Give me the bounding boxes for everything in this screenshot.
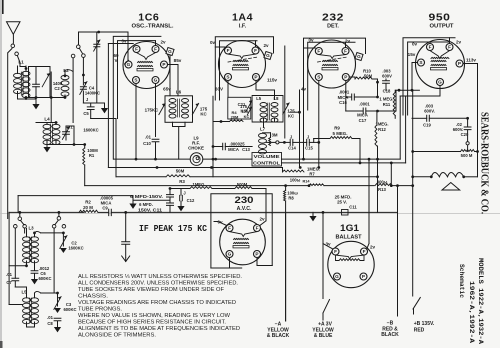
svg-text:L1: L1: [18, 60, 24, 65]
svg-text:MODELS 1922-A,1932-A: MODELS 1922-A,1932-A: [477, 258, 484, 344]
tube 230 (AVC) pin P: [254, 251, 261, 258]
svg-text:1A4: 1A4: [232, 12, 253, 24]
svg-text:R12: R12: [378, 127, 386, 132]
svg-text:115v: 115v: [267, 78, 277, 83]
wire: [390, 163, 392, 186]
svg-text:OUTPUT: OUTPUT: [430, 23, 455, 29]
svg-text:C17: C17: [359, 118, 367, 123]
svg-text:Schematic: Schematic: [458, 264, 465, 298]
tube 1A4 (IF amp) pin F: [225, 47, 232, 54]
lead -B wire: [397, 186, 399, 316]
ground below L1: [35, 98, 37, 105]
resistor R7: [283, 170, 304, 172]
svg-text:R13: R13: [378, 187, 386, 192]
wire: [372, 78, 378, 80]
svg-text:C18: C18: [383, 89, 391, 94]
svg-text:1600KC: 1600KC: [83, 128, 98, 133]
bus wire: [116, 176, 166, 178]
svg-text:2v: 2v: [160, 40, 166, 45]
tube 1A4 (IF amp) internal elements: [233, 60, 248, 61]
volume control box: [252, 153, 282, 167]
wire: [27, 326, 35, 328]
svg-text:RED: RED: [414, 327, 425, 333]
svg-text:F: F: [344, 49, 347, 54]
wire: [394, 116, 396, 119]
coil L7: [259, 133, 267, 137]
wire: [323, 244, 333, 249]
svg-text:G: G: [357, 54, 361, 59]
resistor R1: [83, 148, 85, 165]
tube 1C6 (osc-transl) pin G: [166, 47, 174, 55]
svg-text:R11: R11: [383, 102, 391, 107]
svg-text:J: J: [307, 135, 310, 140]
svg-text:G: G: [335, 274, 339, 279]
shield box 230: [211, 194, 272, 268]
svg-text:L5: L5: [256, 96, 262, 101]
wire left frame: [8, 212, 10, 304]
svg-text:25 MFD.: 25 MFD.: [335, 194, 352, 199]
svg-text:R2: R2: [85, 200, 91, 205]
svg-text:CHOKE: CHOKE: [188, 146, 204, 151]
svg-text:R14: R14: [303, 179, 311, 183]
L6 primary: [169, 99, 176, 103]
box C21 R4: [228, 97, 251, 119]
wire P to L6: [168, 64, 178, 66]
shield box 232: [304, 38, 366, 159]
svg-text:& BLACK: & BLACK: [267, 333, 290, 339]
resistor R10: [355, 77, 372, 79]
svg-text:R3: R3: [179, 179, 185, 184]
resistor R12: [375, 125, 377, 146]
svg-text:50M: 50M: [364, 73, 373, 78]
trimmer arrow C2: [42, 73, 50, 87]
svg-text:L3: L3: [28, 226, 34, 231]
svg-text:1400KC: 1400KC: [85, 91, 100, 96]
wire S down: [318, 81, 320, 168]
svg-text:2v: 2v: [370, 245, 376, 250]
svg-text:ALIGNMENT IS TO BE MADE AT FRE: ALIGNMENT IS TO BE MADE AT FREQUENCIES I…: [78, 326, 240, 332]
tube 1G1 (ballast) pin P: [360, 273, 367, 280]
svg-text:1 MEG.: 1 MEG.: [379, 97, 393, 102]
ground: [312, 212, 314, 216]
svg-text:C8: C8: [47, 321, 53, 326]
svg-text:S: S: [226, 75, 229, 80]
antenna: [7, 22, 21, 43]
tuning cap C2 frame: [29, 67, 51, 98]
svg-text:F: F: [135, 47, 138, 52]
wire: [47, 144, 85, 146]
svg-text:F: F: [254, 48, 257, 53]
svg-text:F: F: [363, 249, 366, 254]
svg-text:5 MEG.: 5 MEG.: [333, 131, 348, 136]
trimmer arrows: [246, 100, 252, 111]
wire: [91, 118, 116, 120]
svg-text:ALL CONDENSERS 200V. UNLESS OT: ALL CONDENSERS 200V. UNLESS OTHERWISE SP…: [78, 281, 238, 287]
tube 950 (output) pin F: [427, 44, 434, 51]
svg-text:KC: KC: [200, 112, 207, 117]
svg-text:S: S: [419, 60, 422, 65]
svg-text:R9: R9: [334, 126, 340, 131]
wire P right: [463, 63, 477, 65]
wire: [20, 66, 26, 68]
svg-text:L6: L6: [176, 90, 182, 95]
wire: [285, 201, 287, 321]
wire: [429, 42, 431, 43]
tube 230 (AVC) pin G: [226, 251, 233, 258]
svg-text:2v: 2v: [259, 217, 265, 222]
svg-text:.0001: .0001: [359, 102, 370, 107]
coil L4: [43, 124, 51, 128]
wire: [304, 47, 316, 49]
svg-text:J: J: [86, 97, 89, 102]
svg-text:2v: 2v: [456, 40, 462, 45]
tube 1C6 (osc-transl) envelope: [123, 42, 170, 89]
wire bottom pins: [135, 84, 137, 159]
svg-text:G: G: [228, 252, 232, 257]
bus wire: [190, 176, 378, 178]
bus wire: [396, 89, 419, 91]
svg-text:C14: C14: [288, 146, 296, 151]
svg-text:.01: .01: [145, 135, 151, 140]
svg-text:J: J: [290, 135, 293, 140]
svg-text:C1: C1: [67, 125, 73, 130]
svg-text:50M: 50M: [176, 169, 185, 174]
svg-text:BLACK: BLACK: [381, 332, 399, 338]
speaker cone: [442, 183, 460, 191]
svg-text:ALL RESISTORS ⅓ WATT UNLESS OT: ALL RESISTORS ⅓ WATT UNLESS OTHERWISE SP…: [78, 274, 242, 280]
capacitor below fold: [124, 211, 127, 214]
tube 1A4 (IF amp) envelope: [219, 41, 266, 88]
tube 1C6 (osc-transl) pin P: [161, 61, 168, 68]
capacitor C13: [223, 143, 226, 149]
trimmer C2b: [62, 233, 64, 246]
svg-text:MICA: MICA: [228, 147, 239, 152]
resistor R13: [375, 184, 392, 186]
lead +B switch: [413, 298, 420, 310]
svg-text:& BLUE: & BLUE: [314, 333, 333, 339]
tube 1C6 (osc-transl) pin G: [152, 77, 159, 84]
wire: [413, 176, 432, 178]
capacitor C10: [152, 139, 159, 142]
svg-text:G: G: [438, 80, 442, 85]
tube 232 (detector) internal elements: [323, 60, 338, 61]
shield box 1A4: [215, 37, 273, 100]
trimmer C3: [57, 293, 59, 306]
svg-text:C7: C7: [6, 280, 12, 285]
svg-text:IF PEAK 175 KC: IF PEAK 175 KC: [139, 223, 207, 234]
svg-text:600KC: 600KC: [63, 307, 76, 312]
wire: [213, 146, 223, 148]
fold line: [0, 212, 500, 214]
tube 1G1 (ballast) pin F: [361, 248, 368, 255]
resistor R4: [230, 120, 244, 122]
tube 1G1 (ballast) pin G: [334, 273, 341, 280]
wire S down: [227, 81, 229, 98]
svg-text:175KC: 175KC: [145, 108, 159, 113]
coil L2: [61, 75, 69, 79]
svg-text:F: F: [317, 49, 320, 54]
svg-text:BALLAST: BALLAST: [336, 234, 363, 240]
tube 230 (AVC) envelope: [220, 219, 266, 265]
lead -A: [285, 213, 287, 321]
capacitor C8: [54, 318, 61, 321]
coil L1 core: [21, 72, 23, 95]
tube 1A4 (IF amp) pin S: [225, 74, 232, 81]
tube 232 (detector) envelope: [308, 40, 356, 88]
wire filament rail: [108, 43, 133, 45]
svg-text:P: P: [162, 62, 165, 67]
tube 950 extra grid: [431, 57, 449, 58]
capacitor C16: [346, 96, 351, 98]
switch +A: [323, 300, 330, 314]
tube 230 (AVC) pin F: [254, 225, 261, 232]
scan left edge: [0, 0, 2, 348]
svg-text:VOLTAGE READINGS ARE FROM CHAS: VOLTAGE READINGS ARE FROM CHASSIS TO IND…: [78, 300, 236, 306]
trimmer C4: [80, 82, 87, 95]
svg-text:600KC: 600KC: [38, 276, 51, 281]
L6 secondary: [182, 99, 189, 103]
svg-text:C15: C15: [305, 146, 313, 151]
svg-text:25 V.: 25 V.: [337, 200, 347, 205]
IF transformer L6 box: [165, 96, 193, 123]
wire: [299, 90, 301, 168]
capacitor C2: [33, 84, 40, 87]
tube 1A4 (IF amp) pin F: [252, 47, 259, 54]
capacitor C7: [12, 278, 19, 281]
svg-text:F: F: [334, 249, 337, 254]
bus wire: [85, 185, 309, 187]
antenna switch: [11, 44, 15, 48]
wire: [50, 72, 52, 123]
svg-text:232: 232: [322, 12, 344, 24]
svg-text:R8: R8: [288, 195, 294, 200]
svg-text:F: F: [154, 47, 157, 52]
capacitor C6: [34, 266, 36, 270]
wire P down: [255, 81, 257, 90]
tube 1A4 (IF amp) pin P: [253, 74, 260, 81]
tube 950 (output) envelope: [416, 40, 465, 89]
wire G square: [284, 46, 286, 138]
coil L1 secondary: [22, 71, 30, 75]
svg-text:F: F: [448, 45, 451, 50]
trimmer C1: [65, 126, 67, 140]
tube 950 (output) pin P: [456, 60, 463, 67]
coil L3: [23, 237, 31, 241]
wire: [215, 46, 224, 48]
wire G down: [439, 86, 441, 96]
svg-text:F: F: [429, 45, 432, 50]
tube 232 (detector) pin F: [315, 48, 322, 55]
svg-text:C5: C5: [83, 111, 89, 116]
coil L8 secondary: [271, 103, 278, 107]
pot wiper: [466, 142, 469, 145]
wire P right: [350, 76, 356, 78]
svg-text:20M: 20M: [231, 115, 239, 120]
svg-text:J: J: [183, 190, 186, 195]
ground below L4: [46, 145, 48, 148]
svg-text:150V. C11: 150V. C11: [138, 207, 163, 212]
wire: [263, 119, 265, 127]
svg-text:230: 230: [235, 195, 254, 205]
svg-text:MICA: MICA: [357, 113, 368, 118]
svg-text:85v: 85v: [174, 58, 182, 63]
svg-text:P: P: [255, 252, 258, 257]
wire: [14, 228, 16, 278]
coil L1 primary: [14, 73, 22, 77]
svg-text:C12: C12: [187, 198, 195, 203]
svg-text:F: F: [227, 48, 230, 53]
tube 230 (AVC) internal elements: [234, 238, 249, 239]
resistor 500M: [461, 150, 475, 152]
wire: [36, 122, 57, 124]
svg-text:CONTROL: CONTROL: [253, 161, 280, 166]
svg-text:.01: .01: [6, 272, 12, 277]
wire: [82, 58, 84, 86]
svg-text:0v: 0v: [121, 39, 127, 44]
svg-text:KC: KC: [240, 109, 246, 114]
ground: [133, 199, 170, 201]
tube 1G1 (ballast) envelope: [328, 241, 374, 287]
svg-text:P: P: [344, 75, 347, 80]
svg-text:20 M: 20 M: [83, 205, 93, 210]
switch contacts: [18, 217, 22, 221]
tube 232 (detector) pin S: [315, 74, 322, 81]
wire top rail: [79, 31, 129, 33]
svg-text:+B 135V.: +B 135V.: [414, 321, 435, 327]
svg-text:0v: 0v: [308, 38, 314, 43]
svg-text:P: P: [458, 61, 461, 66]
wire: [18, 98, 37, 100]
svg-text:G: G: [266, 53, 270, 58]
resistor R2: [79, 210, 98, 212]
resistor R11: [393, 92, 395, 115]
wire: [378, 110, 397, 112]
svg-text:500 M: 500 M: [461, 153, 473, 158]
wire wiper: [267, 141, 276, 143]
bus wire: [108, 167, 282, 169]
wire: [84, 165, 86, 186]
svg-text:G: G: [168, 49, 172, 54]
svg-text:KC: KC: [288, 114, 295, 119]
svg-text:4v: 4v: [301, 87, 307, 92]
svg-text:C10: C10: [143, 141, 151, 146]
svg-text:TUBE PRONGS.: TUBE PRONGS.: [78, 306, 122, 312]
svg-text:800ω: 800ω: [377, 179, 388, 184]
svg-text:OSC.-TRANSL.: OSC.-TRANSL.: [132, 23, 175, 29]
shield box 950: [403, 38, 455, 115]
svg-text:6 MFD-150V.: 6 MFD-150V.: [130, 194, 163, 199]
wire: [35, 231, 41, 233]
wire bus: [9, 211, 84, 213]
speaker field coil: [431, 173, 463, 177]
svg-text:C9: C9: [102, 205, 108, 210]
capacitor C17: [346, 110, 363, 112]
trimmer 175KC right: [192, 103, 198, 114]
svg-text:VOLUME: VOLUME: [254, 154, 280, 159]
tube 1C6 (osc-transl) pin G: [125, 61, 132, 68]
svg-text:G: G: [127, 62, 131, 67]
svg-text:BECAUSE OF HIGH SERIES RESISTA: BECAUSE OF HIGH SERIES RESISTANCE IN CIR…: [78, 319, 226, 325]
bus wire 162.9: [282, 162, 406, 164]
svg-text:P: P: [254, 75, 257, 80]
svg-text:R1: R1: [89, 153, 95, 158]
coil L5 primary: [260, 103, 267, 107]
svg-text:G: G: [154, 78, 158, 83]
wire: [18, 195, 133, 197]
svg-text:100ω: 100ω: [290, 177, 301, 182]
svg-text:C13: C13: [242, 147, 250, 152]
svg-text:1600KC: 1600KC: [68, 246, 83, 251]
svg-text:1MEG.: 1MEG.: [375, 122, 388, 127]
svg-text:L4: L4: [44, 117, 50, 122]
wire: [98, 211, 109, 213]
capacitor C9: [109, 209, 112, 215]
svg-text:600V.: 600V.: [424, 109, 435, 114]
svg-text:WHERE NO VALUE IS SHOWN, READI: WHERE NO VALUE IS SHOWN, READING IS VERY…: [78, 313, 230, 319]
shield box 1C6: [113, 36, 161, 159]
tube 950 (output) internal elements: [431, 60, 446, 61]
tube 232 (detector) pin F: [342, 48, 349, 55]
svg-text:CHASSIS.: CHASSIS.: [78, 294, 108, 300]
svg-text:L8: L8: [274, 96, 280, 101]
svg-text:.000025: .000025: [229, 142, 245, 147]
tube 232 (detector) pin P: [342, 74, 349, 81]
wire: [7, 53, 9, 219]
wire: [83, 102, 104, 104]
svg-text:3M: 3M: [271, 133, 277, 138]
svg-text:S: S: [134, 78, 137, 83]
svg-text:C19: C19: [423, 123, 431, 128]
IF transformer 2 box: [252, 96, 283, 123]
svg-text:P: P: [362, 274, 365, 279]
svg-text:0v: 0v: [412, 42, 418, 47]
svg-text:F: F: [228, 226, 231, 231]
trimmer top: [96, 32, 98, 103]
wire: [127, 32, 129, 60]
svg-text:KC: KC: [244, 114, 250, 119]
svg-text:1962-A,1992-A: 1962-A,1992-A: [468, 281, 475, 343]
wire: [218, 222, 227, 226]
svg-text:.0001: .0001: [339, 90, 350, 95]
svg-text:2v: 2v: [263, 43, 269, 48]
svg-text:.01: .01: [47, 315, 53, 320]
ballast filament resistor: [339, 259, 360, 261]
svg-text:C2: C2: [54, 86, 60, 91]
svg-text:1C6: 1C6: [138, 12, 159, 24]
svg-text:F: F: [256, 226, 259, 231]
svg-text:L7: L7: [260, 127, 266, 132]
tube 950 (output) pin F: [446, 44, 453, 51]
tube 950 (output) pin S: [418, 59, 425, 66]
tube 1A4 (IF amp) pin G: [264, 51, 272, 59]
svg-text:S: S: [317, 75, 320, 80]
svg-text:500M: 500M: [237, 182, 248, 187]
tube 230 (AVC) pin F: [226, 225, 233, 232]
svg-text:MICA: MICA: [338, 95, 349, 100]
wire 230 pins down: [229, 258, 231, 269]
svg-text:15v: 15v: [408, 52, 416, 57]
wire below L6: [172, 122, 174, 126]
svg-text:TUBE SOCKETS ARE VIEWED FROM U: TUBE SOCKETS ARE VIEWED FROM UNDER SIDE …: [78, 287, 225, 293]
tube 232 (detector) pin G: [355, 52, 363, 60]
svg-text:I.F.: I.F.: [239, 23, 247, 29]
svg-text:SEARS-ROEBUCK & CO.: SEARS-ROEBUCK & CO.: [479, 112, 490, 214]
svg-text:0v: 0v: [210, 40, 216, 45]
svg-text:ALONGSIDE OF TRIMMERS.: ALONGSIDE OF TRIMMERS.: [78, 332, 156, 338]
svg-text:C11: C11: [349, 205, 357, 210]
bus wire: [114, 158, 191, 160]
tube 950 (output) pin G: [437, 79, 444, 86]
